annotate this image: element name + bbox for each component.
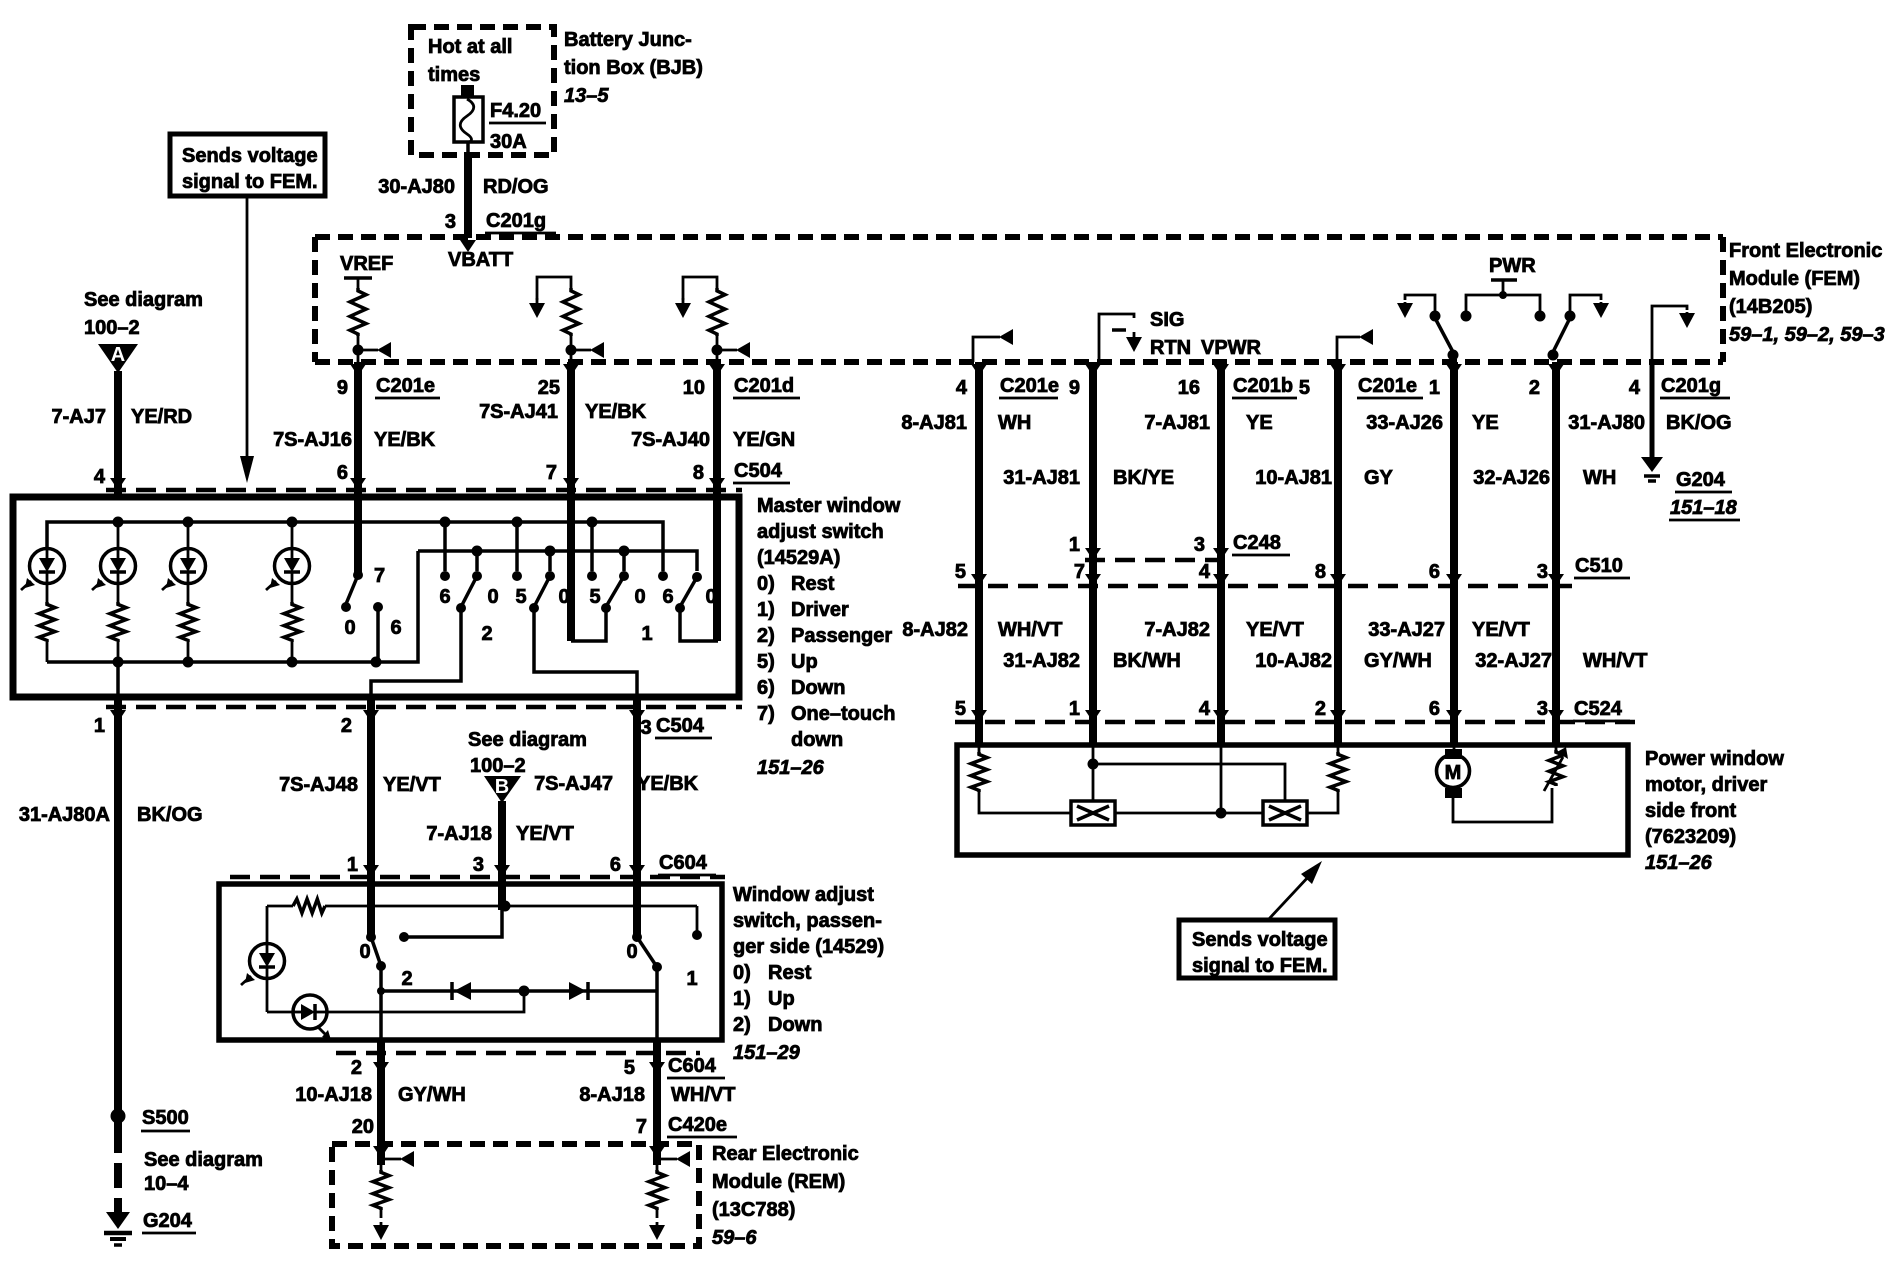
svg-text:C201e: C201e (376, 375, 435, 397)
wire 32-AJ26 YE col (1450, 362, 1458, 745)
svg-text:1: 1 (641, 623, 652, 645)
callout box Sends voltage signal to FEM (lower) (1179, 920, 1335, 978)
svg-text:6: 6 (439, 586, 450, 608)
svg-text:Up: Up (768, 988, 795, 1010)
wire lever to 7S-AJ41 wire (571, 608, 606, 641)
svg-text:7: 7 (374, 565, 385, 587)
svg-text:GY/WH: GY/WH (1364, 650, 1432, 672)
svg-text:4: 4 (1199, 561, 1211, 583)
wire 7-AJ18 YE/VT from B to passenger switch pin 3 (498, 801, 506, 910)
svg-text:31-AJ80A: 31-AJ80A (19, 804, 110, 826)
master window adjust switch box outline (13, 497, 739, 697)
resistor LED2 (110, 602, 126, 642)
wire 7S-AJ41 YE/BK C201e pin25 to C504 pin7 (567, 362, 575, 493)
wire lever to 7S-AJ40 wire (680, 608, 718, 641)
svg-text:One–touch: One–touch (791, 703, 895, 725)
FEM switch right (to ground stub) (1570, 295, 1601, 312)
FEM internal stub with down arrow (col 10) (683, 277, 717, 300)
svg-text:Front Electronic: Front Electronic (1729, 240, 1882, 262)
variable resistor position sensor (1555, 745, 1558, 750)
bus bottom (LED return) inside master switch (47, 551, 418, 662)
svg-text:3: 3 (1194, 534, 1205, 556)
wire 8-AJ18 WH/VT to REM (653, 1040, 661, 1165)
svg-text:side front: side front (1645, 800, 1736, 822)
FEM internal stub col C201e pin 4 (right section) (973, 337, 1000, 362)
svg-text:31-AJ81: 31-AJ81 (1003, 467, 1080, 489)
svg-text:C604: C604 (659, 852, 708, 874)
svg-text:Down: Down (791, 677, 845, 699)
svg-text:Down: Down (768, 1014, 822, 1036)
svg-text:C510: C510 (1575, 555, 1623, 577)
battery junction box (BJB) dashed outline (411, 27, 554, 155)
wire 31-AJ80A BK/OG master pin1 to S500 (114, 697, 122, 1116)
svg-text:0): 0) (757, 573, 775, 595)
svg-text:VREF: VREF (340, 253, 393, 275)
svg-text:times: times (428, 64, 480, 86)
svg-text:C201b: C201b (1233, 375, 1293, 397)
resistor REM left (380, 1165, 383, 1170)
svg-text:7): 7) (757, 703, 775, 725)
LED 2 illumination (117, 522, 120, 548)
svg-text:G204: G204 (1676, 469, 1726, 491)
svg-text:0: 0 (626, 941, 637, 963)
connector C524 dashed line (955, 720, 1645, 725)
svg-text:100–2: 100–2 (84, 317, 140, 339)
wire 7-AJ7 YE/RD from A to master switch pin 4 (114, 371, 122, 497)
FEM internal stub col C201e pin 1 (1337, 337, 1360, 362)
svg-text:1): 1) (733, 988, 751, 1010)
LED passenger illumination (250, 944, 285, 979)
svg-text:down: down (791, 729, 843, 751)
pointer arrow to motor box (1268, 875, 1310, 920)
FEM switch left (to ground stub) (1405, 295, 1435, 312)
svg-text:C201e: C201e (1000, 375, 1059, 397)
FEM internal SIG RTN stub (1099, 314, 1134, 362)
resistor FEM col 10 (709, 288, 725, 336)
svg-text:32-AJ26: 32-AJ26 (1473, 467, 1550, 489)
svg-text:YE/BK: YE/BK (585, 401, 647, 423)
svg-text:WH: WH (1583, 467, 1616, 489)
LED passenger indicator (horizontal) (267, 1011, 293, 1014)
svg-text:3: 3 (1537, 698, 1548, 720)
wire to ground G204 (dashed continuation) (114, 1116, 122, 1128)
svg-text:8-AJ18: 8-AJ18 (579, 1084, 645, 1106)
wire 8-AJ81 WH C201e pin4 col (975, 362, 983, 745)
svg-text:ger side (14529): ger side (14529) (733, 936, 884, 958)
resistor VREF pull-up (344, 276, 372, 280)
resistor LED4 (284, 602, 300, 642)
LED 1 illumination (46, 540, 49, 548)
svg-text:151–26: 151–26 (757, 757, 825, 779)
svg-text:33-AJ26: 33-AJ26 (1366, 412, 1443, 434)
callout box Sends voltage signal to FEM (upper left) (170, 134, 325, 196)
svg-text:BK/YE: BK/YE (1113, 467, 1174, 489)
resistor motor box col1 (978, 745, 981, 752)
output wires through box bottom (379, 991, 383, 1040)
svg-text:7-AJ7: 7-AJ7 (52, 406, 106, 428)
down-position line with diodes (379, 966, 383, 991)
svg-text:B: B (495, 776, 509, 798)
svg-text:1: 1 (1429, 377, 1440, 399)
svg-text:3: 3 (445, 211, 456, 233)
svg-text:10-AJ18: 10-AJ18 (295, 1084, 372, 1106)
svg-text:32-AJ27: 32-AJ27 (1475, 650, 1552, 672)
svg-text:8-AJ81: 8-AJ81 (901, 412, 967, 434)
svg-text:9: 9 (1069, 377, 1080, 399)
svg-text:6: 6 (390, 617, 401, 639)
passenger switch right lever 0/1 (632, 932, 642, 942)
svg-text:YE/VT: YE/VT (1472, 619, 1530, 641)
svg-text:Sends voltage: Sends voltage (182, 145, 318, 167)
svg-text:7: 7 (1074, 561, 1085, 583)
svg-text:Hot at all: Hot at all (428, 36, 512, 58)
window adjust switch passenger side box outline (219, 884, 722, 1040)
wire lever right down to pin 5 (655, 967, 659, 991)
wire 7S-AJ47 YE/BK master pin3 to passenger switch (633, 697, 641, 940)
svg-text:Up: Up (791, 651, 818, 673)
svg-text:See diagram: See diagram (84, 289, 203, 311)
svg-text:7S-AJ47: 7S-AJ47 (534, 773, 613, 795)
svg-text:4: 4 (1199, 698, 1211, 720)
svg-text:PWR: PWR (1489, 255, 1536, 277)
svg-text:YE/GN: YE/GN (733, 429, 795, 451)
svg-text:5: 5 (1299, 377, 1310, 399)
svg-text:YE: YE (1472, 412, 1499, 434)
wire 7S-AJ41 inside master switch (567, 493, 575, 641)
svg-text:C201e: C201e (1358, 375, 1417, 397)
svg-text:WH: WH (998, 412, 1031, 434)
svg-text:6: 6 (337, 462, 348, 484)
wire lever to pin 3 output (534, 608, 637, 697)
svg-text:VPWR: VPWR (1201, 337, 1262, 359)
wire motor to position sensor (1453, 788, 1552, 822)
connector C504 dashed line (bottom) (106, 705, 742, 710)
svg-text:0: 0 (487, 586, 498, 608)
svg-text:7S-AJ40: 7S-AJ40 (631, 429, 710, 451)
svg-text:Driver: Driver (791, 599, 849, 621)
diode D1 (cathode left) (450, 982, 454, 1000)
right contact stub (696, 906, 699, 931)
wire 7S-AJ40 inside master switch (713, 493, 721, 641)
svg-text:6: 6 (610, 854, 621, 876)
svg-text:Sends voltage: Sends voltage (1192, 929, 1328, 951)
svg-text:10: 10 (683, 377, 705, 399)
svg-text:C420e: C420e (668, 1114, 727, 1136)
svg-text:6: 6 (1429, 698, 1440, 720)
diode D2 (cathode right) (569, 982, 586, 1000)
svg-text:8: 8 (693, 462, 704, 484)
svg-text:1: 1 (1069, 698, 1080, 720)
motor M driver side (1453, 745, 1456, 750)
connector C604 dashed line (230, 875, 725, 880)
resistor LED1 (39, 602, 55, 642)
svg-text:signal to FEM.: signal to FEM. (182, 171, 318, 193)
svg-text:0): 0) (733, 962, 751, 984)
svg-text:YE/VT: YE/VT (1246, 619, 1304, 641)
wire 7S-AJ16 YE/BK C201e pin9 to C504 pin6 (354, 362, 362, 493)
svg-text:0: 0 (359, 941, 370, 963)
svg-text:YE/RD: YE/RD (131, 406, 192, 428)
svg-text:C201g: C201g (1661, 375, 1721, 397)
connector C510 dashed line (958, 584, 1572, 589)
svg-text:YE/BK: YE/BK (374, 429, 436, 451)
svg-text:(14B205): (14B205) (1729, 296, 1812, 318)
wire 30-AJ80 RD/OG fuse to FEM C201g (464, 152, 472, 238)
wire col2 branch (1092, 745, 1095, 801)
svg-text:1: 1 (1069, 534, 1080, 556)
svg-text:30-AJ80: 30-AJ80 (378, 176, 455, 198)
svg-text:YE: YE (1246, 412, 1273, 434)
svg-text:2: 2 (351, 1057, 362, 1079)
svg-text:1: 1 (347, 854, 358, 876)
resistor LED3 (180, 602, 196, 642)
svg-text:YE/BK: YE/BK (637, 773, 699, 795)
svg-text:switch, passen-: switch, passen- (733, 910, 882, 932)
svg-text:A: A (111, 344, 125, 366)
svg-text:C248: C248 (1233, 532, 1281, 554)
wire 7S-AJ48 YE/VT master pin2 to passenger switch (367, 697, 375, 940)
svg-text:5: 5 (589, 586, 600, 608)
svg-text:2): 2) (733, 1014, 751, 1036)
svg-text:59–6: 59–6 (712, 1227, 757, 1249)
svg-text:SIG: SIG (1150, 309, 1184, 331)
svg-text:4: 4 (956, 377, 968, 399)
svg-text:Rest: Rest (791, 573, 835, 595)
ground G204 (left) (106, 1212, 130, 1229)
svg-text:GY/WH: GY/WH (398, 1084, 466, 1106)
svg-text:G204: G204 (143, 1210, 193, 1232)
svg-text:0: 0 (344, 617, 355, 639)
svg-text:7-AJ18: 7-AJ18 (426, 823, 492, 845)
svg-text:30A: 30A (490, 131, 527, 153)
wire 10-AJ81 YE col (1217, 362, 1225, 745)
power window motor box outline (957, 745, 1628, 855)
switch pair driver-up 5/0 (590, 522, 594, 571)
svg-text:(7623209): (7623209) (1645, 826, 1736, 848)
svg-text:F4.20: F4.20 (490, 100, 541, 122)
svg-text:7-AJ81: 7-AJ81 (1144, 412, 1210, 434)
svg-text:Rest: Rest (768, 962, 812, 984)
svg-text:Window adjust: Window adjust (733, 884, 874, 906)
wire lever to pin 2 output (371, 608, 461, 697)
svg-text:8-AJ82: 8-AJ82 (902, 619, 968, 641)
svg-text:7S-AJ16: 7S-AJ16 (273, 429, 352, 451)
svg-text:1: 1 (94, 715, 105, 737)
REM input stub right with arrow (649, 1146, 665, 1158)
svg-text:31-AJ80: 31-AJ80 (1568, 412, 1645, 434)
svg-text:RD/OG: RD/OG (483, 176, 549, 198)
wire between X boxes with col3 junction (1115, 812, 1263, 815)
svg-text:10-AJ81: 10-AJ81 (1255, 467, 1332, 489)
svg-text:GY: GY (1364, 467, 1394, 489)
svg-text:3: 3 (640, 717, 651, 739)
passenger switch left lever 0/2 (366, 932, 376, 942)
wire 7-AJ81/31-AJ81 col (1089, 362, 1097, 745)
connector C604 dashed line (lower) (336, 1051, 700, 1056)
switch lever driver-up output (1435, 318, 1453, 352)
svg-text:WH/VT: WH/VT (1583, 650, 1647, 672)
switch pair driver-down 6/0 (658, 571, 668, 581)
svg-text:1): 1) (757, 599, 775, 621)
interior feed line with resistor (267, 905, 293, 908)
svg-text:(14529A): (14529A) (757, 547, 840, 569)
svg-text:31-AJ82: 31-AJ82 (1003, 650, 1080, 672)
one-touch contact 6 (373, 602, 383, 612)
svg-text:6: 6 (662, 586, 673, 608)
svg-text:C504: C504 (656, 715, 705, 737)
svg-text:2: 2 (1315, 698, 1326, 720)
svg-text:YE/VT: YE/VT (383, 774, 441, 796)
svg-text:6): 6) (757, 677, 775, 699)
svg-text:10–4: 10–4 (144, 1173, 189, 1195)
svg-text:151–26: 151–26 (1645, 852, 1713, 874)
svg-text:2: 2 (1529, 377, 1540, 399)
wire 7S-AJ16 inside master switch (354, 490, 362, 575)
svg-text:4: 4 (1629, 377, 1641, 399)
switch lever driver-down output (1553, 318, 1570, 352)
svg-text:See diagram: See diagram (144, 1149, 263, 1171)
svg-text:WH/VT: WH/VT (671, 1084, 735, 1106)
svg-text:5: 5 (515, 586, 526, 608)
svg-text:S500: S500 (142, 1107, 189, 1129)
svg-text:7S-AJ41: 7S-AJ41 (479, 401, 558, 423)
svg-text:C201d: C201d (734, 375, 794, 397)
svg-text:5: 5 (955, 698, 966, 720)
svg-text:25: 25 (538, 377, 560, 399)
svg-text:2): 2) (757, 625, 775, 647)
svg-text:1: 1 (686, 968, 697, 990)
svg-text:tion Box (BJB): tion Box (BJB) (564, 57, 703, 79)
svg-text:5): 5) (757, 651, 775, 673)
contact stub from pin 3 wire (404, 906, 502, 937)
VBATT entry arrow into FEM (460, 240, 476, 252)
svg-text:C201g: C201g (486, 210, 546, 232)
svg-text:BK/OG: BK/OG (137, 804, 203, 826)
svg-text:C604: C604 (668, 1055, 717, 1077)
svg-text:7S-AJ48: 7S-AJ48 (279, 774, 358, 796)
resistor motor box col4 (1337, 745, 1340, 752)
svg-text:20: 20 (352, 1116, 374, 1138)
svg-text:2: 2 (341, 715, 352, 737)
bus 2 (switch common) inside master switch (418, 551, 697, 571)
one-touch switch contact 7/0 (353, 570, 363, 580)
wire 7S-AJ40 YE/GN C201d pin10 to C504 pin8 (713, 362, 721, 493)
ground G204 (FEM) (1641, 457, 1663, 472)
svg-text:YE/VT: YE/VT (516, 823, 574, 845)
svg-text:151–29: 151–29 (733, 1042, 801, 1064)
splice S500 (111, 1109, 126, 1124)
switch pair passenger-up 5/0 (515, 522, 519, 571)
svg-text:(13C788): (13C788) (712, 1199, 795, 1221)
svg-text:6: 6 (1429, 561, 1440, 583)
svg-text:M: M (1445, 762, 1462, 784)
svg-text:16: 16 (1178, 377, 1200, 399)
svg-text:signal to FEM.: signal to FEM. (1192, 955, 1328, 977)
svg-text:Rear Electronic: Rear Electronic (712, 1143, 859, 1165)
pointer arrow from callout to master switch (246, 196, 249, 460)
svg-text:See diagram: See diagram (468, 729, 587, 751)
svg-text:8: 8 (1315, 561, 1326, 583)
wire 33-AJ26 GY col (1334, 362, 1342, 745)
relay/switch X box 2 (1263, 801, 1307, 825)
svg-text:WH/VT: WH/VT (998, 619, 1062, 641)
svg-text:4: 4 (94, 466, 106, 488)
switch pair passenger-down 6/0 (443, 522, 447, 571)
svg-text:BK/OG: BK/OG (1666, 412, 1732, 434)
fuse F4.20 30A (461, 85, 474, 97)
FEM internal stub to G204 ground wire (1652, 306, 1687, 362)
wire 31-AJ80 WH col (1552, 362, 1560, 745)
wire BK/OG to G204 ground (1650, 362, 1655, 457)
svg-text:0: 0 (634, 586, 645, 608)
svg-text:adjust switch: adjust switch (757, 521, 884, 543)
svg-text:59–1, 59–2, 59–3: 59–1, 59–2, 59–3 (1729, 324, 1885, 346)
svg-text:3: 3 (473, 854, 484, 876)
svg-text:VBATT: VBATT (448, 249, 513, 271)
bus top (illumination feed) inside master switch (47, 522, 663, 571)
svg-text:33-AJ27: 33-AJ27 (1368, 619, 1445, 641)
svg-text:Power window: Power window (1645, 748, 1784, 770)
svg-text:Battery Junc-: Battery Junc- (564, 29, 692, 51)
svg-text:BK/WH: BK/WH (1113, 650, 1181, 672)
wire LED bus to pin 1 inside master switch (116, 662, 120, 700)
rear electronic module dashed outline (332, 1144, 699, 1246)
svg-text:2: 2 (401, 968, 412, 990)
corner to LED1 (266, 906, 269, 944)
resistor REM right (656, 1165, 659, 1170)
svg-text:7: 7 (546, 462, 557, 484)
svg-text:Passenger: Passenger (791, 625, 892, 647)
svg-text:100–2: 100–2 (470, 755, 526, 777)
REM input stub left with arrow (373, 1146, 389, 1158)
svg-text:10-AJ82: 10-AJ82 (1255, 650, 1332, 672)
LED 4 illumination (291, 522, 294, 548)
resistor FEM col 25 (563, 288, 579, 336)
svg-text:7: 7 (636, 1116, 647, 1138)
svg-text:13–5: 13–5 (564, 85, 609, 107)
svg-text:5: 5 (955, 561, 966, 583)
off-page triangle B (484, 776, 521, 803)
LED 3 illumination (187, 522, 190, 548)
svg-text:7-AJ82: 7-AJ82 (1144, 619, 1210, 641)
svg-text:9: 9 (337, 377, 348, 399)
wire to LED indicator from node (327, 991, 524, 1012)
svg-text:C524: C524 (1574, 698, 1623, 720)
connector C504 dashed line (top) (106, 488, 742, 493)
svg-text:3: 3 (1537, 561, 1548, 583)
node VREF resistor to C201e pin 9 (353, 345, 364, 356)
svg-text:Master window: Master window (757, 495, 901, 517)
svg-text:motor, driver: motor, driver (1645, 774, 1767, 796)
svg-text:C504: C504 (734, 460, 783, 482)
Front Electronic Module dashed outline (315, 234, 1723, 240)
relay/switch X box 1 (1071, 801, 1115, 825)
svg-text:5: 5 (624, 1057, 635, 1079)
wire 10-AJ18 GY/WH to REM (377, 1040, 385, 1165)
off-page triangle A (98, 344, 138, 373)
svg-text:Module (FEM): Module (FEM) (1729, 268, 1860, 290)
svg-text:Module (REM): Module (REM) (712, 1171, 845, 1193)
svg-text:151–18: 151–18 (1670, 497, 1738, 519)
svg-text:2: 2 (481, 623, 492, 645)
FEM internal stub with down arrow (col 25) (537, 277, 571, 300)
svg-text:RTN: RTN (1150, 337, 1191, 359)
